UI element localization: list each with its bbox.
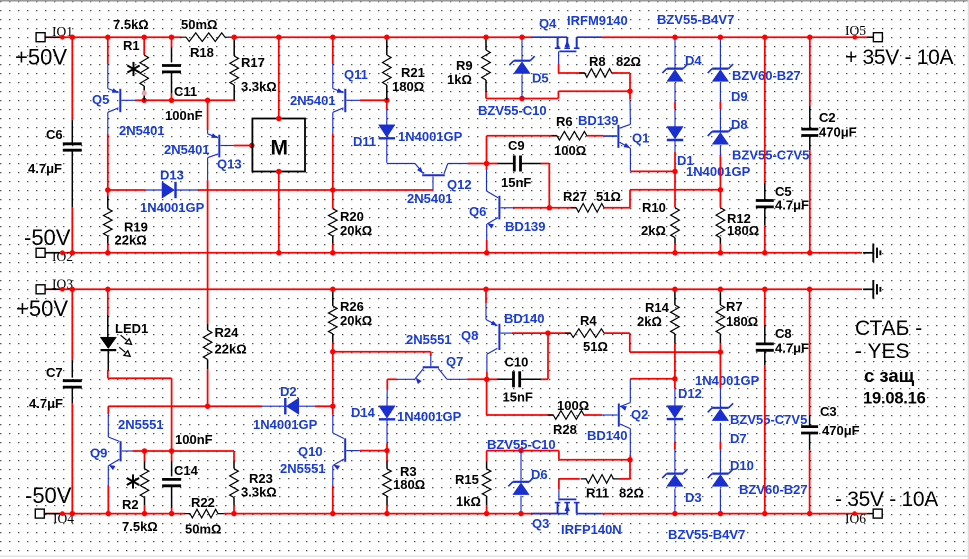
svg-text:470μF: 470μF — [822, 423, 860, 438]
svg-text:100nF: 100nF — [175, 432, 213, 447]
node C3 rail junction — [807, 287, 813, 293]
svg-text:C9: C9 — [508, 138, 525, 153]
node R17 rail junction — [231, 34, 237, 40]
svg-text:R2: R2 — [122, 497, 139, 512]
svg-text:2N5551: 2N5551 — [118, 417, 164, 432]
transistor Q2 BD140 — [629, 379, 631, 403]
svg-text:100nF: 100nF — [165, 108, 203, 123]
zener D7 BZV55-C7V5 — [719, 352, 721, 388]
terminal IO3 — [36, 285, 45, 294]
svg-text:51Ω: 51Ω — [596, 189, 621, 204]
wire C8 column top — [764, 289, 766, 325]
resistor R20 20k — [332, 190, 334, 209]
wire D4 D1 link — [674, 102, 676, 109]
svg-text:470μF: 470μF — [819, 125, 857, 140]
svg-text:BZV55-C10: BZV55-C10 — [487, 437, 556, 452]
wire Q2 emitter wire — [630, 378, 675, 380]
svg-text:82Ω: 82Ω — [616, 54, 641, 69]
wire R17 bottom corner — [233, 99, 235, 102]
capacitor C8 4.7uF — [756, 342, 774, 345]
svg-text:R9: R9 — [456, 58, 473, 73]
svg-text:C3: C3 — [820, 404, 837, 419]
wire R6 to Q1 base — [587, 135, 604, 137]
capacitor C7 4.7uF — [63, 379, 82, 382]
svg-text:D7: D7 — [730, 431, 747, 446]
svg-text:100Ω: 100Ω — [557, 398, 589, 413]
node R19 bottom junction — [105, 250, 111, 256]
node R4 C10 junction — [545, 330, 551, 336]
svg-text:180Ω: 180Ω — [392, 79, 424, 94]
svg-text:R18: R18 — [190, 45, 214, 60]
wire Q9 collector net — [108, 405, 207, 407]
svg-text:R8: R8 — [589, 54, 606, 69]
node Q6 emitter rail junction — [484, 250, 490, 256]
wire -50V bottom rail left segment — [45, 513, 186, 515]
wire R26 column to D2 node — [332, 352, 334, 407]
node D9 rail junction — [718, 34, 724, 40]
wire R28 to Q2 base — [584, 414, 602, 416]
capacitor C6 4.7uF — [63, 142, 82, 145]
node R8 Q1 junction — [627, 88, 633, 94]
svg-text:M: M — [271, 137, 289, 160]
node D3 bottom junction — [672, 511, 678, 517]
svg-text:C7: C7 — [46, 365, 63, 380]
svg-text:R6: R6 — [556, 114, 573, 129]
node D6 bottom junction — [518, 511, 524, 517]
node C2 rail junction — [807, 34, 813, 40]
node R1 rail junction — [141, 34, 147, 40]
svg-text:R7: R7 — [726, 299, 743, 314]
node Q2 emitter D12 junction — [672, 376, 678, 382]
wire C10 node to R28 corner — [486, 379, 488, 415]
wire R6 corner — [486, 136, 488, 164]
svg-text:15nF: 15nF — [503, 390, 533, 405]
svg-text:D10: D10 — [730, 458, 754, 473]
resistor R21 180 — [386, 37, 388, 55]
led LED1 — [100, 337, 116, 348]
svg-text:D13: D13 — [160, 168, 184, 183]
capacitor C5 4.7uF — [756, 199, 774, 202]
svg-text:19.08.16: 19.08.16 — [863, 390, 926, 408]
wire motor top feed — [278, 37, 280, 118]
node C7 rail junction — [70, 287, 76, 293]
node C5 rail junction — [762, 34, 768, 40]
svg-text:2N5401: 2N5401 — [119, 123, 165, 138]
svg-text:Q5: Q5 — [92, 92, 109, 107]
node motor top junction — [276, 116, 282, 122]
svg-text:R28: R28 — [553, 422, 577, 437]
svg-text:82Ω: 82Ω — [619, 486, 644, 501]
node D10 bottom junction — [718, 511, 724, 517]
wire top rail right of R18 to Q4 source — [231, 36, 532, 38]
svg-text:BZV55-C10: BZV55-C10 — [478, 103, 547, 118]
terminal IO6 — [873, 509, 882, 518]
svg-text:22kΩ: 22kΩ — [115, 233, 147, 248]
capacitor C11 100nF — [171, 37, 173, 47]
node R9 rail junction — [483, 34, 489, 40]
node C3 bottom junction — [807, 511, 813, 517]
node D5 bottom junction — [519, 96, 525, 102]
node Q11 emitter rail junction — [330, 34, 336, 40]
node motor top rail junction — [276, 34, 282, 40]
wire C10 right corner up — [541, 378, 548, 380]
wire Q7 collector to C10 node — [467, 378, 487, 380]
svg-text:2kΩ: 2kΩ — [641, 223, 666, 238]
node C11 bottom junction — [169, 98, 175, 104]
svg-text:4.7μF: 4.7μF — [775, 341, 809, 356]
transistor Q9 2N5551 — [107, 414, 109, 437]
svg-text:BD140: BD140 — [504, 311, 544, 326]
svg-text:D12: D12 — [678, 386, 702, 401]
node Q5 emitter rail junction — [105, 34, 111, 40]
svg-text:R14: R14 — [645, 300, 670, 315]
wire D2 to R26 column — [315, 405, 333, 407]
wire D7 D10 link — [719, 442, 721, 450]
svg-text:50mΩ: 50mΩ — [185, 522, 221, 537]
svg-text:R15: R15 — [455, 472, 479, 487]
zener D9 BZV60-B27 — [719, 37, 721, 67]
node IO1 junction — [60, 35, 65, 40]
node R14 rail junction — [672, 287, 678, 293]
wire y190 to R20 and Q12 base — [208, 189, 433, 191]
wire C2 column top — [809, 37, 811, 106]
resistor R9 1k — [485, 37, 487, 50]
wire LED1 bottom corner to Q9 collector net — [107, 370, 109, 378]
transistor Q1 BD139 — [629, 99, 631, 124]
wire Q13 collector long drop to R24 — [207, 180, 209, 324]
wire R11 right riser — [629, 460, 631, 479]
node Q12 collector C9 junction — [484, 161, 490, 167]
svg-text:Q9: Q9 — [90, 446, 107, 461]
node C11 rail junction — [169, 34, 175, 40]
node C14 top junction — [169, 448, 175, 454]
svg-text:R24: R24 — [215, 325, 240, 340]
svg-text:180Ω: 180Ω — [393, 477, 425, 492]
svg-text:R21: R21 — [401, 65, 425, 80]
resistor R22 50m ohm in bottom rail — [185, 509, 224, 518]
svg-text:R22: R22 — [191, 495, 215, 510]
svg-text:1N4001GP: 1N4001GP — [253, 417, 318, 432]
svg-text:1N4001GP: 1N4001GP — [398, 129, 463, 144]
node D4 rail junction — [672, 34, 678, 40]
node R21 rail junction — [384, 34, 390, 40]
node C10 left junction — [484, 377, 490, 383]
node C8 bottom junction — [762, 511, 768, 517]
diode D12 1N4001GP — [674, 379, 676, 389]
node R7 rail junction — [718, 287, 724, 293]
svg-text:+50V: +50V — [16, 296, 68, 321]
node Q13 emitter junction — [205, 98, 211, 104]
svg-text:R17: R17 — [241, 55, 265, 70]
svg-text:BD139: BD139 — [505, 219, 545, 234]
wire D12 D3 link — [674, 442, 676, 450]
resistor R6 100 — [551, 132, 592, 141]
svg-text:4.7μF: 4.7μF — [28, 161, 62, 176]
svg-text:Q10: Q10 — [298, 444, 323, 459]
node Q9 emitter rail junction — [106, 511, 112, 517]
svg-text:D8: D8 — [731, 117, 748, 132]
svg-text:Q2: Q2 — [631, 407, 648, 422]
svg-text:R10: R10 — [642, 200, 666, 215]
wire Q11 emitter from rail — [332, 37, 334, 64]
zener D5 BZV55-C10 — [521, 37, 523, 60]
node D1 Q1 junction — [672, 169, 678, 175]
svg-text:Q1: Q1 — [632, 131, 649, 146]
svg-text:D5: D5 — [532, 71, 549, 86]
node C7 bottom junction — [70, 511, 76, 517]
node D13 anode junction — [105, 187, 111, 193]
transistor Q13 2N5401 — [207, 130, 209, 134]
diode D13 1N4001GP — [145, 189, 162, 191]
node C5 bottom junction — [762, 250, 768, 256]
wire R15 net horizontal — [487, 450, 559, 452]
wire Q5 collector down to D13 node — [107, 134, 109, 190]
svg-text:-50V: -50V — [25, 483, 72, 508]
node Q8 emitter rail junction — [483, 287, 489, 293]
resistor R23 3.3k — [233, 451, 235, 461]
svg-text:BD139: BD139 — [578, 113, 618, 128]
node C2 bottom junction — [807, 250, 813, 256]
node motor bottom junction — [276, 169, 282, 175]
svg-text:+ 35V - 10A: + 35V - 10A — [845, 46, 953, 69]
svg-text:-50V: -50V — [24, 225, 71, 250]
node D5 rail junction — [519, 34, 525, 40]
node R12 top junction — [718, 187, 724, 193]
svg-text:с защ: с защ — [864, 365, 915, 386]
transistor Q5 2N5401 — [107, 64, 109, 89]
wire C6 bottom to mid rail — [71, 207, 73, 253]
node D6 top junction — [518, 448, 524, 454]
svg-text:BZV55-B4V7: BZV55-B4V7 — [668, 527, 745, 542]
transistor Q11 2N5401 — [332, 64, 334, 89]
terminal IO2 — [36, 248, 45, 257]
wire +50V top rail left segment — [45, 36, 182, 38]
svg-text:51Ω: 51Ω — [583, 339, 608, 354]
wire bottom rail R22 to Q3 source — [224, 513, 557, 515]
svg-text:3.3kΩ: 3.3kΩ — [241, 79, 277, 94]
svg-text:C2: C2 — [819, 110, 836, 125]
node R10 bottom junction — [672, 250, 678, 256]
svg-text:1kΩ: 1kΩ — [447, 72, 472, 87]
transistor Q12 2N5401 — [415, 164, 424, 174]
svg-text:LED1: LED1 — [115, 321, 148, 336]
wire D9 D8 link — [719, 102, 721, 109]
node R20 bottom junction — [330, 250, 336, 256]
svg-text:BZV55-B4V7: BZV55-B4V7 — [657, 12, 734, 27]
wire +35V output rail from Q4 drain to IO5 — [602, 36, 868, 38]
wire C2 bottom — [809, 150, 811, 253]
svg-text:R4: R4 — [580, 313, 597, 328]
node R7 bottom junction — [718, 349, 724, 355]
wire C9 right corner to Q6 base — [541, 163, 550, 165]
wire Q5 base rail segment — [144, 99, 234, 101]
svg-text:C14: C14 — [174, 463, 199, 478]
svg-text:1N4001GP: 1N4001GP — [397, 409, 462, 424]
node R21 bottom D11 junction — [384, 98, 390, 104]
node R12 bottom junction — [718, 250, 724, 256]
svg-text:2N5401: 2N5401 — [407, 191, 453, 206]
svg-text:D3: D3 — [685, 490, 702, 505]
resistor R26 20k — [332, 289, 334, 306]
wire D1 cathode to junction — [674, 152, 676, 171]
svg-text:100Ω: 100Ω — [554, 143, 586, 158]
svg-text:Q6: Q6 — [469, 204, 486, 219]
resistor R3 180 — [386, 451, 388, 461]
ground symbol right of mid rail 1 — [863, 252, 873, 254]
wire Q1 collector from R8 node — [629, 91, 631, 99]
svg-text:- 35V - 10A: - 35V - 10A — [835, 488, 938, 511]
svg-text:R26: R26 — [340, 299, 364, 314]
capacitor C2 470uF — [801, 128, 818, 131]
zener D4 BZV55-B4V7 — [674, 37, 676, 67]
zener D6 BZV55-C10 — [520, 451, 522, 481]
wire Q8 collector to C10 node — [486, 372, 488, 379]
svg-text:2kΩ: 2kΩ — [637, 314, 662, 329]
svg-text:R11: R11 — [586, 486, 609, 501]
diode D1 1N4001GP — [674, 109, 676, 127]
diode D11 1N4001GP — [386, 100, 388, 110]
svg-text:D11: D11 — [353, 134, 376, 149]
wire Q6 base segment — [513, 207, 549, 209]
svg-text:R27: R27 — [563, 189, 587, 204]
node R20 top junction — [330, 187, 336, 193]
svg-text:+50V: +50V — [15, 45, 67, 70]
node R24 bottom junction — [205, 403, 211, 409]
wire C3 bottom — [809, 450, 811, 514]
wire D13 net left — [108, 189, 145, 191]
wire C7 bottom to bottom rail — [71, 403, 73, 514]
node Q10 emitter rail junction — [330, 511, 336, 517]
svg-text:4.7μF: 4.7μF — [29, 396, 63, 411]
transistor Q3 IRFP140N n-mosfet — [531, 513, 567, 515]
wire Q9 base wire — [133, 450, 235, 452]
svg-text:1kΩ: 1kΩ — [456, 494, 481, 509]
svg-text:180Ω: 180Ω — [726, 314, 758, 329]
node IO3 junction — [60, 287, 65, 292]
diode D2 1N4001GP — [208, 405, 262, 407]
svg-text:BZV60-B27: BZV60-B27 — [732, 68, 801, 83]
wire R26 to Q7 base — [333, 351, 431, 353]
svg-text:Q7: Q7 — [446, 354, 463, 369]
svg-text:1N4001GP: 1N4001GP — [686, 164, 751, 179]
resistor R1 7.5k adjustable — [143, 37, 145, 55]
wire Q5 base to R1 — [135, 99, 144, 101]
wire D14 cathode lead — [386, 444, 388, 451]
transistor Q10 2N5551 — [332, 406, 334, 415]
terminal IO5 — [873, 33, 882, 42]
svg-text:2N5551: 2N5551 — [406, 332, 452, 347]
wire C7 top lead — [71, 289, 73, 360]
svg-text:Q8: Q8 — [461, 328, 478, 343]
zener D10 BZV60-B27 — [719, 450, 721, 473]
svg-text:D9: D9 — [731, 89, 748, 104]
zener D8 BZV55-C7V5 — [719, 109, 721, 131]
svg-text:BD140: BD140 — [587, 428, 627, 443]
wire Q7 emitter corner to D14 — [387, 378, 396, 380]
svg-text:D6: D6 — [531, 467, 548, 482]
node LED1 rail junction — [105, 287, 111, 293]
wire Q10 base to D14 — [360, 450, 387, 452]
node IO4 junction — [60, 511, 65, 516]
resistor R19 22k — [107, 190, 109, 196]
wire R28 left segment — [487, 414, 554, 416]
svg-text:C6: C6 — [46, 127, 63, 142]
node R2 top junction — [142, 448, 148, 454]
motor M — [252, 119, 305, 172]
capacitor C9 15nF — [487, 163, 498, 165]
svg-text:2N5401: 2N5401 — [164, 142, 210, 157]
resistor R10 2k — [674, 171, 676, 207]
wire R27 right corner to R12 node — [604, 207, 630, 209]
wire Q4 gate to R8 — [558, 64, 560, 73]
svg-text:180Ω: 180Ω — [727, 223, 759, 238]
wire Q13 emitter drop — [207, 100, 209, 130]
svg-text:15nF: 15nF — [501, 175, 531, 190]
wire C8 bottom — [764, 365, 766, 514]
node IO2 junction — [60, 250, 65, 255]
wire Q12 collector to C9 node — [467, 163, 486, 165]
wire gate net riser — [557, 91, 559, 98]
svg-text:- YES: - YES — [855, 340, 909, 363]
wire Q10 emitter to rail — [332, 485, 334, 513]
wire LED1 top lead — [107, 289, 109, 315]
svg-text:BZV55-C7V5: BZV55-C7V5 — [730, 412, 807, 427]
svg-text:4.7μF: 4.7μF — [775, 198, 809, 213]
wire C6 top lead — [71, 37, 73, 120]
node R1 bottom junction — [141, 98, 147, 104]
svg-text:Q13: Q13 — [217, 157, 242, 172]
node R11 corner junction — [627, 457, 633, 463]
svg-text:D14: D14 — [351, 405, 376, 420]
node D2 R26 junction — [330, 403, 336, 409]
wire C3 column top — [809, 289, 811, 415]
svg-text:BZV60-B27: BZV60-B27 — [739, 482, 808, 497]
wire Q13 base to motor — [234, 145, 252, 147]
wire Q5 emitter from rail — [107, 37, 109, 64]
transistor Q7 2N5551 — [430, 356, 432, 366]
wire gate net horizontal — [486, 98, 558, 100]
wire Q2 collector to R11 node — [629, 455, 631, 460]
svg-text:3.3kΩ: 3.3kΩ — [241, 485, 277, 500]
resistor R12 180 — [719, 190, 721, 208]
wire C5 column top — [764, 37, 766, 183]
svg-text:СТАБ -: СТАБ - — [855, 317, 922, 340]
node IO5 junction — [852, 35, 857, 40]
svg-text:Q11: Q11 — [344, 67, 368, 82]
wire R4 right corner to R7 node — [604, 332, 630, 334]
node motor left junction — [249, 143, 255, 149]
svg-text:D4: D4 — [685, 53, 702, 68]
resistor R7 180 — [719, 289, 721, 305]
wire Q11 collector down — [332, 134, 334, 190]
wire -35V output rail from Q3 drain to IO6 — [601, 513, 867, 515]
node R26 rail junction — [330, 287, 336, 293]
wire Q9 collector corner — [107, 406, 109, 414]
svg-text:7.5kΩ: 7.5kΩ — [122, 519, 158, 534]
wire -50V mid rail — [45, 252, 863, 254]
svg-text:Q4: Q4 — [539, 16, 557, 31]
svg-text:C8: C8 — [775, 326, 792, 341]
node R26 bottom junction — [330, 349, 336, 355]
svg-text:20kΩ: 20kΩ — [340, 313, 372, 328]
transistor Q4 IRFM9140 p-mosfet — [531, 36, 567, 38]
wire Q9 emitter to bottom rail — [107, 485, 109, 514]
resistor R24 22k — [207, 324, 209, 330]
node motor bottom rail junction — [276, 250, 282, 256]
transistor Q6 BD139 — [486, 164, 488, 171]
wire C5 bottom — [764, 225, 766, 253]
wire R8 right corner — [612, 72, 630, 74]
